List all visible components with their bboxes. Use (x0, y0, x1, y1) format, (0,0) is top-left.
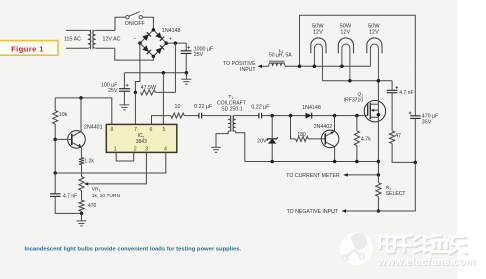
wire collector up (80, 98, 82, 132)
node dot bulb3 right (377, 79, 381, 83)
diode 1N4148 secondary (306, 113, 312, 119)
wire primary bottom lead (66, 47, 88, 49)
label COILCRAFT (217, 101, 246, 107)
svg-text:8: 8 (110, 127, 113, 133)
capacitor 1000uF (181, 46, 192, 73)
resistor 10 (171, 113, 184, 118)
node dot 180 tap (289, 114, 293, 118)
node dot bulb1 left (313, 65, 317, 69)
svg-text:12V AC: 12V AC (103, 36, 121, 42)
node dot Q3 emitter bottom (333, 160, 337, 164)
svg-text:3843: 3843 (136, 139, 147, 145)
wire T1 primary bottom to gnd (216, 131, 228, 147)
transformer 115AC core (91, 30, 93, 49)
svg-text:470: 470 (88, 203, 97, 209)
svg-text:4.7 nF: 4.7 nF (63, 194, 77, 200)
svg-text:1k, 10 TURN: 1k, 10 TURN (92, 193, 121, 199)
svg-text:2: 2 (134, 147, 137, 153)
wire emitter down (80, 147, 82, 157)
svg-text:1N4148: 1N4148 (302, 105, 321, 111)
node dot bulb2 left (340, 65, 344, 69)
IC name (136, 133, 147, 145)
label 470 (88, 203, 97, 209)
resistor 47.5W (141, 90, 176, 95)
label plus (169, 36, 172, 42)
node dot gnd rail pin5 (162, 71, 166, 75)
capacitor 4.7nF right (387, 81, 398, 93)
resistor 470 (79, 200, 84, 211)
wire node line pin4 (55, 153, 166, 174)
label 2N4401 (84, 124, 103, 130)
resistor 47 (390, 131, 395, 144)
wire source down (377, 117, 379, 161)
label TO NEGATIVE INPUT (287, 209, 339, 215)
bridge diode top-right (156, 32, 165, 41)
svg-text:2N4401: 2N4401 (84, 124, 103, 130)
label L1 (279, 48, 284, 54)
IC U1 3843 body (106, 124, 177, 152)
svg-text:−: − (134, 36, 137, 42)
wire 470uF bottom (414, 118, 416, 162)
svg-text:47.5W: 47.5W (141, 85, 156, 91)
wire 180 drop (291, 116, 296, 139)
inductor L1 (269, 61, 285, 66)
label 1N4148 bridge (162, 28, 181, 34)
svg-text:10k: 10k (59, 112, 68, 118)
label R1 (386, 185, 392, 191)
node dot 4.7k bottom (355, 160, 359, 164)
node dot left rail low (53, 171, 57, 175)
wire to 100uF (123, 73, 125, 89)
svg-text:1N4148: 1N4148 (162, 28, 181, 34)
resistor 10k (53, 111, 58, 125)
label 25V cap100 (108, 88, 118, 94)
svg-text:ON/OFF: ON/OFF (125, 21, 146, 27)
label 470uF (422, 114, 439, 120)
svg-text:4: 4 (164, 147, 167, 153)
svg-text:50 µH, 5A: 50 µH, 5A (269, 53, 292, 59)
wire Q3 emitter down (334, 147, 336, 162)
wire negative input (346, 162, 415, 211)
wire minus drop (135, 43, 140, 92)
wire vcc rail pin8 (55, 98, 112, 125)
node dot rail A riser (298, 65, 302, 69)
wire 470 to gnd (81, 211, 83, 221)
svg-text:1: 1 (114, 147, 117, 153)
node dot source bottom (377, 160, 381, 164)
transformer T1 primary coil (228, 116, 231, 132)
wire AC return (96, 48, 154, 60)
bridge diode bottom-left (142, 45, 151, 54)
wire 4.7nF to 47 (391, 93, 393, 131)
svg-text:47: 47 (395, 133, 401, 139)
wire 10 to cap (184, 115, 199, 117)
label ON/OFF (125, 21, 146, 27)
label 35V (422, 120, 432, 126)
bridge node dots (138, 28, 168, 58)
capacitor 4.7nF left (50, 173, 82, 213)
wire switch to bridge top (143, 17, 154, 30)
potentiometer VR1 (79, 177, 84, 191)
wire left rail top (54, 98, 56, 111)
wire primary top lead (66, 29, 88, 31)
wire T1 secondary bottom (236, 131, 245, 161)
wire left rail mid (54, 124, 56, 173)
node dot 47.5W left (134, 91, 138, 95)
svg-text:25V: 25V (194, 52, 204, 58)
label 25V cap1000 (194, 52, 204, 58)
wire R1 top (377, 162, 379, 183)
label VR1 (92, 187, 101, 193)
IC pin labels top (110, 127, 165, 133)
wire 47 to link (392, 144, 415, 163)
wire 1.2k to pot (81, 165, 83, 177)
label 4.7k (361, 136, 371, 142)
arrow current meter (343, 173, 348, 176)
node dot mosfet source (377, 113, 381, 117)
transformer 115AC secondary coil (93, 30, 96, 48)
svg-text:SELECT: SELECT (386, 191, 406, 197)
node dot current meter (377, 173, 381, 177)
lamp LP1 50W 12V (311, 24, 326, 81)
svg-text:3: 3 (145, 147, 148, 153)
svg-text:www.elecfans.com: www.elecfans.com (377, 256, 476, 268)
wire zener bottom (271, 143, 273, 161)
node dot bulb2 right (348, 79, 352, 83)
wire current meter (348, 174, 379, 176)
node dot Q3 collector tap (333, 114, 337, 118)
svg-text:180: 180 (297, 132, 306, 138)
svg-text:INPUT: INPUT (240, 67, 256, 73)
svg-text:7: 7 (134, 127, 137, 133)
IC pin labels bottom (114, 147, 167, 153)
label 0.22uF secondary (251, 105, 270, 111)
wire bulb rail A (285, 65, 370, 67)
resistor 4.7k (354, 131, 359, 146)
wire R1 bottom (377, 196, 379, 211)
wire sec rail (262, 115, 368, 117)
resistor R1 (376, 183, 381, 197)
switch ON/OFF (126, 12, 143, 19)
lamp LP2 50W 12V (338, 24, 353, 81)
node dot base (53, 138, 57, 142)
bridge diode top-left (142, 32, 151, 41)
wire 4.7k top (356, 116, 358, 131)
transformer 115AC primary coil (88, 30, 91, 48)
node dot collector (79, 96, 83, 100)
svg-text:25V: 25V (108, 88, 118, 94)
wire zener top (271, 116, 273, 139)
label minus (134, 36, 137, 42)
svg-text:12V: 12V (369, 30, 379, 36)
watermark elecfans (340, 232, 476, 269)
label 115 AC (64, 36, 81, 42)
wire bottom rail (245, 161, 379, 163)
label SD 250-1 (221, 106, 243, 112)
capacitor 100uF (119, 84, 130, 92)
label 12V AC (103, 36, 121, 42)
ground under T1 (211, 147, 221, 152)
ground under 470 (77, 221, 87, 226)
arrow negative input (342, 209, 347, 212)
transistor Q3 2N4402 (321, 130, 339, 148)
svg-text:0.22 µF: 0.22 µF (194, 104, 213, 110)
svg-text:6: 6 (150, 127, 153, 133)
wire 100uF to ground (123, 91, 125, 105)
label 0.22uF primary (194, 104, 213, 110)
wire drain up (377, 81, 379, 105)
svg-text:115 AC: 115 AC (64, 36, 81, 42)
wire bulb rail B (322, 80, 392, 82)
ground under 1000uF (181, 73, 191, 84)
bridge rectifier wires (140, 30, 166, 57)
figure label (0, 41, 58, 56)
label 50uH 5A (269, 53, 292, 59)
node dot gate node (355, 114, 359, 118)
zener diode 20V (267, 137, 278, 143)
label 1k 10 TURN (92, 193, 121, 199)
label 20V (257, 138, 267, 144)
MOSFET Q1 IRF3710 (364, 101, 385, 122)
wire Q3 collector up (334, 116, 336, 132)
capacitor 0.22uF secondary (259, 113, 262, 119)
label 1000uF (194, 47, 214, 53)
ground under 100uF (119, 105, 129, 110)
svg-text:10: 10 (175, 104, 181, 110)
wire 180 to base (308, 138, 325, 140)
wire T1 sec to cap (236, 115, 259, 117)
wire pin7 riser (134, 92, 136, 124)
wire plus node drop (174, 43, 176, 92)
svg-text:0.22 µF: 0.22 µF (251, 105, 270, 111)
label 180 (297, 132, 306, 138)
node dot plus rail (174, 41, 178, 45)
svg-text:4.7 nF: 4.7 nF (399, 90, 413, 96)
wire cap to T1 (202, 115, 229, 117)
wire top loop (300, 15, 416, 115)
label 100uF (101, 82, 118, 88)
capacitor 0.22uF primary (199, 113, 202, 119)
node dot R1 bottom (377, 209, 381, 213)
label T1 (228, 94, 233, 100)
svg-text:12V: 12V (340, 30, 350, 36)
svg-text:1.2k: 1.2k (84, 159, 94, 165)
label Q1 (357, 92, 363, 98)
capacitor 470uF (409, 112, 421, 119)
svg-text:4.7k: 4.7k (361, 136, 371, 142)
node dot 470uF bottom (414, 161, 418, 165)
wire pin5 riser (162, 73, 164, 125)
node dot zener tap (270, 114, 274, 118)
transformer T1 core (231, 115, 233, 132)
label SELECT (386, 191, 406, 197)
wire secondary top to switch (96, 17, 126, 30)
svg-text:TO CURRENT METER: TO CURRENT METER (286, 173, 340, 179)
label 4.7nF right (399, 90, 413, 96)
label 1N4148 secondary (302, 105, 321, 111)
bridge diode bottom-right (156, 45, 165, 54)
wiper arrow (84, 153, 146, 186)
svg-text:Incandescent light bulbs provi: Incandescent light bulbs provide conveni… (25, 247, 242, 253)
svg-text:+: + (169, 36, 172, 42)
svg-text:35V: 35V (422, 120, 432, 126)
svg-text:20V: 20V (257, 138, 267, 144)
transformer T1 secondary coil (233, 116, 236, 132)
caption text (25, 247, 242, 253)
wire ground rail (124, 72, 186, 74)
wire bridge plus to cap (166, 43, 186, 51)
label TO POSITIVE INPUT (223, 61, 256, 73)
label TO CURRENT METER (286, 173, 340, 179)
svg-text:5: 5 (163, 127, 166, 133)
label 47 (395, 133, 401, 139)
node dot zener bottom (270, 160, 274, 164)
resistor 1.2k (79, 157, 84, 164)
wire pins 1-2 bracket (116, 153, 134, 162)
svg-text:SD 250-1: SD 250-1 (221, 106, 243, 112)
wire pot to 470 (81, 191, 83, 201)
svg-text:Figure 1: Figure 1 (11, 45, 44, 54)
label 1.2k (84, 159, 94, 165)
wire pin6 jog (152, 116, 171, 125)
svg-text:IRF3710: IRF3710 (344, 98, 364, 104)
svg-text:2N4402: 2N4402 (314, 124, 333, 130)
node dot 470 bottom (80, 212, 84, 216)
wire arrow to L1 (262, 65, 269, 67)
label 2N4402 (314, 124, 333, 130)
arrow positive input (257, 65, 262, 68)
label 4.7nF left (63, 194, 77, 200)
label 47.5W (141, 85, 156, 91)
wire 4.7k bottom (356, 146, 358, 162)
lamp LP3 50W 12V (367, 24, 382, 81)
node dot gnd rail right (185, 71, 189, 75)
svg-text:12V: 12V (313, 30, 323, 36)
resistor 180 (296, 136, 309, 141)
label 10k (59, 112, 68, 118)
svg-text:TO NEGATIVE INPUT: TO NEGATIVE INPUT (287, 209, 339, 215)
label 10 (175, 104, 181, 110)
label IRF3710 (344, 98, 364, 104)
transistor Q2 2N4401 (55, 131, 85, 149)
